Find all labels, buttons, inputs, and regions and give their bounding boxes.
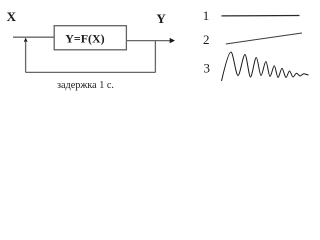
svg-text:X: X — [7, 9, 17, 24]
svg-text:Y=F(X): Y=F(X) — [65, 31, 105, 45]
wire output Y — [127, 40, 171, 42]
svg-text:3: 3 — [204, 60, 211, 75]
wire input X — [13, 36, 54, 38]
signal 3 damped oscillation curve — [222, 52, 309, 81]
svg-text:задержка 1 с.: задержка 1 с. — [57, 80, 114, 91]
signal 2 ramp line — [226, 33, 302, 44]
arrowhead output Y — [170, 38, 175, 43]
arrowhead feedback up into input wire — [24, 38, 28, 42]
block U1 Y=F(X) — [54, 26, 126, 50]
wire feedback left vertical — [25, 42, 27, 72]
signal 1 constant line — [222, 15, 300, 17]
svg-text:Y: Y — [156, 11, 166, 26]
wire feedback right vertical — [154, 41, 156, 73]
svg-text:1: 1 — [203, 8, 210, 23]
wire feedback bottom horizontal — [26, 71, 156, 73]
svg-text:2: 2 — [203, 32, 210, 47]
